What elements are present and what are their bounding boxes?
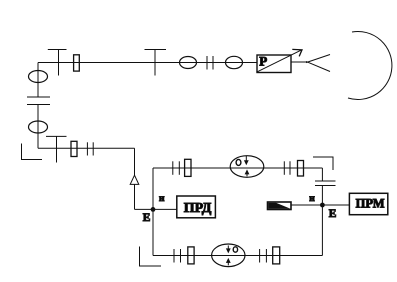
- waveguide section rect 3: [185, 159, 191, 176]
- flange joint ticks F2: [87, 142, 93, 155]
- parabolic reflector arc: [348, 31, 392, 99]
- svg-text:ПРД: ПРД: [184, 201, 212, 216]
- flange joint ticks F5: [174, 249, 181, 263]
- corner bracket B3: [313, 157, 333, 170]
- capacitor plates (choke joint right): [315, 181, 336, 186]
- label 0 in E6: [233, 247, 237, 252]
- wire: left vertical lower: [37, 105, 39, 149]
- wire: upper loop top line: [153, 167, 322, 169]
- wire: lower loop bottom line: [153, 255, 322, 257]
- wire: upper loop right vertical: [321, 168, 323, 205]
- wire: left vertical upper: [37, 63, 39, 98]
- waveguide section rect 6: [273, 247, 280, 264]
- probe T3 (tuning screw): [46, 136, 67, 162]
- wire: down from second line: [134, 148, 136, 209]
- svg-text:Е: Е: [143, 212, 151, 224]
- phase shifter ellipse E5: [230, 156, 264, 178]
- node E left (junction dot): [151, 207, 156, 212]
- wire: second line: [38, 147, 135, 149]
- label 0 in E5: [236, 159, 241, 165]
- wire: upper loop left vertical: [152, 168, 154, 209]
- receiver box PRM: [349, 193, 387, 214]
- wire: wedge to node to PRM: [291, 204, 349, 206]
- valve triangle (ferrite isolator): [130, 175, 139, 184]
- wire: horizontal into node E left: [135, 208, 177, 210]
- waveguide section rect 1: [74, 55, 80, 71]
- svg-text:н: н: [309, 194, 315, 204]
- horn antenna: [306, 55, 330, 72]
- arrow through box P: [257, 49, 303, 72]
- svg-text:Р: Р: [259, 53, 267, 68]
- waveguide section rect 4: [298, 161, 304, 177]
- wire: top feed line: [38, 62, 257, 64]
- corner bracket B2: [140, 247, 162, 267]
- wire: lower loop left vertical: [152, 209, 154, 255]
- wire: lower loop right vertical: [321, 205, 323, 256]
- corner bracket B1: [22, 144, 43, 160]
- probe T2 (tuning screw): [145, 50, 167, 76]
- down arrow in E6: [226, 246, 231, 254]
- flange joint ticks F6: [260, 249, 267, 263]
- svg-text:Е: Е: [329, 208, 337, 220]
- polarizer box P: [257, 55, 291, 73]
- rotary joint ellipse E3: [29, 71, 48, 83]
- flange joint ticks F4: [284, 161, 290, 175]
- wedge attenuator: [268, 202, 292, 210]
- flange joint ticks F3: [173, 161, 180, 175]
- transmitter box PRD: [177, 196, 216, 218]
- svg-text:н: н: [159, 194, 165, 204]
- down arrow in E5: [244, 156, 249, 165]
- rotary joint ellipse E2: [226, 56, 243, 68]
- wire: box P to horn: [291, 61, 308, 63]
- waveguide section rect 2: [71, 141, 77, 156]
- svg-text:ПРМ: ПРМ: [356, 196, 385, 210]
- up arrow in E5: [245, 169, 250, 176]
- flange joint ticks F1: [207, 56, 213, 70]
- rotary joint ellipse E4: [29, 121, 48, 133]
- phase shifter ellipse E6: [212, 244, 245, 267]
- capacitor plates (choke joint): [27, 97, 50, 105]
- waveguide section rect 5: [188, 247, 194, 264]
- probe T1 (tuning screw): [48, 50, 67, 76]
- rotary joint ellipse E1: [180, 57, 197, 69]
- up arrow in E6: [226, 258, 231, 266]
- node E right (junction dot): [320, 203, 325, 208]
